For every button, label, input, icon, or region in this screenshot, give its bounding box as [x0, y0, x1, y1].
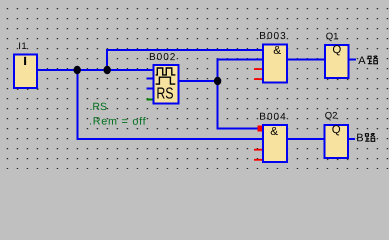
- AND gate B003: [263, 45, 287, 83]
- stub B003 input 4 open (red): [254, 78, 262, 80]
- svg-text:.Rem = off: .Rem = off: [89, 116, 147, 128]
- stub B004 input 4 open (red): [254, 159, 262, 161]
- stub Q2 output: [349, 138, 356, 140]
- wire top run to B003 input 1: [106, 49, 263, 51]
- stub B004 input 3 open (red): [254, 149, 262, 151]
- svg-text:Q2: Q2: [325, 111, 338, 122]
- wire B003 output to Q1: [288, 59, 324, 61]
- svg-text:RS: RS: [156, 85, 173, 102]
- AND gate B004: [263, 125, 287, 162]
- CJK glyph lu (road): [365, 134, 375, 142]
- svg-text:Q1: Q1: [326, 31, 339, 42]
- input block I1: [14, 55, 37, 89]
- CJK glyph lu (road): [368, 56, 378, 64]
- stub B002 Par input (green): [147, 99, 154, 101]
- grid ticks under Q1: [327, 79, 349, 81]
- output name B-lu at Q2: [356, 132, 375, 144]
- svg-text:.RS: .RS: [89, 101, 107, 113]
- wire vertical drop from node J3: [217, 81, 219, 129]
- stub Q1 output: [350, 59, 357, 61]
- wire B004 output to Q2: [288, 138, 324, 140]
- svg-text:I1: I1: [18, 41, 27, 52]
- node J2 junction: [104, 66, 111, 74]
- grid ticks under Q2: [327, 159, 349, 161]
- wire B002 output to node J3: [180, 80, 219, 82]
- background canvas: [0, 0, 389, 169]
- red connection marker at B004 input 1: [258, 126, 263, 132]
- pulse relay B002: [154, 65, 179, 104]
- wire run to B004 input 1: [217, 128, 258, 130]
- wire bottom run to B004 input 2: [77, 138, 263, 140]
- stub B002 S input: [147, 78, 154, 80]
- svg-text:A: A: [358, 55, 366, 67]
- wire I1 output to B002 Trg: [38, 69, 153, 71]
- wire vertical rise from node J2: [106, 49, 108, 70]
- node J3 junction: [214, 77, 221, 85]
- wire run to B003 input 2: [217, 59, 264, 61]
- output name A-lu at Q1: [358, 55, 377, 67]
- stub B002 R input: [147, 88, 154, 90]
- output block Q2: [325, 124, 349, 158]
- node J1 junction: [74, 66, 81, 74]
- output block Q1: [325, 44, 349, 78]
- svg-text:&: &: [270, 126, 278, 138]
- svg-text:B002: B002: [149, 52, 176, 63]
- pulse icon two pulses: [156, 68, 176, 75]
- wire vertical rise from node J3: [217, 59, 219, 83]
- svg-text:B004: B004: [259, 112, 286, 123]
- svg-text:B: B: [356, 132, 363, 144]
- stub B003 input 3 open (red): [254, 68, 262, 70]
- svg-text:Q: Q: [332, 124, 341, 136]
- grid ticks under I1: [17, 88, 39, 90]
- pulse icon one pulse: [156, 77, 176, 84]
- wire vertical drop from node J1: [77, 70, 79, 140]
- svg-text:B003: B003: [259, 31, 286, 42]
- svg-text:&: &: [273, 45, 281, 57]
- svg-text:Q: Q: [332, 44, 341, 56]
